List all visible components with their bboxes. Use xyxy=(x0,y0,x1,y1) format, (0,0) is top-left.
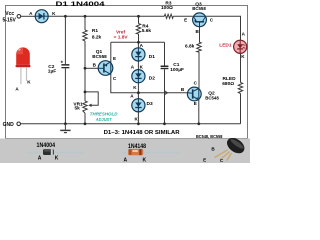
svg-text:LED1: LED1 xyxy=(219,42,232,48)
wire C1 bottom xyxy=(164,69,166,124)
svg-text:ADJUST: ADJUST xyxy=(95,117,112,123)
wire D3 to ground rail xyxy=(137,112,139,124)
wire VR1 to ground rail xyxy=(84,113,86,124)
svg-text:5-15V: 5-15V xyxy=(3,17,17,23)
svg-text:680Ω: 680Ω xyxy=(222,81,234,87)
1N4004 photo xyxy=(27,149,83,155)
svg-text:BC548, BC558: BC548, BC558 xyxy=(196,134,223,140)
svg-text:5.6k: 5.6k xyxy=(142,28,152,34)
LED photo graphic xyxy=(16,47,31,84)
svg-text:BC558: BC558 xyxy=(192,6,206,12)
photo bar xyxy=(0,139,250,164)
junction arrow on base wire xyxy=(165,91,168,95)
wire 6.8k resistor to Q2 collector xyxy=(198,52,200,89)
svg-text:E: E xyxy=(113,56,116,61)
svg-text:THRESHOLD: THRESHOLD xyxy=(90,112,118,118)
svg-text:D1–3: 1N4148 OR SIMILAR: D1–3: 1N4148 OR SIMILAR xyxy=(104,130,180,136)
transistor Q2 xyxy=(187,87,201,101)
resistor 6.8k xyxy=(197,42,201,52)
wire Q3 base to 6.8k resistor xyxy=(199,27,201,42)
svg-text:BC548: BC548 xyxy=(205,95,219,101)
transistor Q3 xyxy=(193,13,207,27)
wire top rail left xyxy=(21,15,35,17)
svg-text:A: A xyxy=(123,157,127,163)
wire R1 to VR1 xyxy=(84,41,86,101)
wire C2 branch top xyxy=(64,16,66,64)
wire RLED to ground rail xyxy=(240,94,242,124)
svg-text:1µF: 1µF xyxy=(48,69,56,75)
svg-text:E: E xyxy=(184,18,187,23)
wire Q1 base xyxy=(85,67,98,69)
wire C1 top xyxy=(164,42,166,65)
svg-text:100µF: 100µF xyxy=(170,67,184,73)
transistor Q1 xyxy=(98,61,113,76)
capacitor C2 xyxy=(61,61,70,69)
wire C2 branch bottom xyxy=(64,68,66,124)
svg-text:D1 1N4004: D1 1N4004 xyxy=(56,2,106,8)
VR1 wiper arrowhead xyxy=(88,104,91,107)
1N4148 photo xyxy=(122,149,180,155)
wire Q1 emitter to Vref node xyxy=(110,42,112,62)
wire D2 to node xyxy=(137,83,139,99)
svg-text:C1: C1 xyxy=(173,62,179,68)
Vcc terminal xyxy=(17,14,21,18)
svg-text:= 1.8V: = 1.8V xyxy=(114,34,129,40)
LED1 symbol xyxy=(234,40,247,53)
svg-text:A: A xyxy=(38,156,42,162)
wire node to Q2 base left part xyxy=(138,92,187,94)
svg-text:D1: D1 xyxy=(149,54,155,60)
wire top rail to Q3 emitter xyxy=(173,15,193,17)
GND terminal xyxy=(17,122,21,126)
wire R4 bottom to Vref xyxy=(138,34,140,42)
svg-text:D2: D2 xyxy=(149,75,155,81)
svg-text:8.2k: 8.2k xyxy=(92,35,102,41)
resistor R3 xyxy=(164,14,173,18)
wire R4 top xyxy=(138,16,140,23)
wire Vref to D1 xyxy=(137,42,139,48)
resistor R4 xyxy=(136,24,140,35)
potentiometer VR1 xyxy=(83,101,87,113)
diode D2 xyxy=(132,70,145,83)
wire Vref horizontal xyxy=(111,41,165,43)
wire R1 branch top xyxy=(84,16,86,30)
wire Q1 collector down xyxy=(111,74,139,92)
svg-text:K: K xyxy=(55,156,59,162)
svg-text:5k: 5k xyxy=(75,106,81,112)
svg-text:Vcc: Vcc xyxy=(5,11,14,17)
wire Q3 collector to LED1 branch xyxy=(206,16,240,40)
capacitor C1 xyxy=(161,66,169,70)
svg-text:D3: D3 xyxy=(147,101,153,107)
wire VR1 wiper loop xyxy=(85,92,98,105)
diode D1 (1N4148 chain) xyxy=(132,48,145,61)
svg-text:1N4148: 1N4148 xyxy=(128,144,147,150)
svg-text:GND: GND xyxy=(3,122,15,128)
svg-text:6.8k: 6.8k xyxy=(185,44,195,50)
node junction dots xyxy=(64,15,200,125)
svg-text:E: E xyxy=(194,101,197,106)
BC548 transistor photo xyxy=(215,135,248,161)
wire LED1 to RLED xyxy=(240,53,242,82)
wire D1 to D2 xyxy=(137,61,139,70)
diode D1 1N4004 xyxy=(35,10,48,23)
wire bottom ground rail xyxy=(21,123,241,125)
resistor RLED xyxy=(238,83,242,94)
svg-text:1N4004: 1N4004 xyxy=(37,143,56,149)
svg-text:100Ω: 100Ω xyxy=(161,5,173,11)
ground symbol below C2 xyxy=(60,124,70,133)
svg-text:E: E xyxy=(203,157,206,162)
resistor R1 xyxy=(83,30,87,41)
svg-text:R1: R1 xyxy=(92,28,98,34)
wire Q2 emitter to ground rail xyxy=(198,100,200,124)
wire top rail middle xyxy=(48,15,164,17)
svg-text:K: K xyxy=(142,157,146,163)
diode D3 xyxy=(132,99,145,112)
svg-text:BC558: BC558 xyxy=(92,54,107,60)
